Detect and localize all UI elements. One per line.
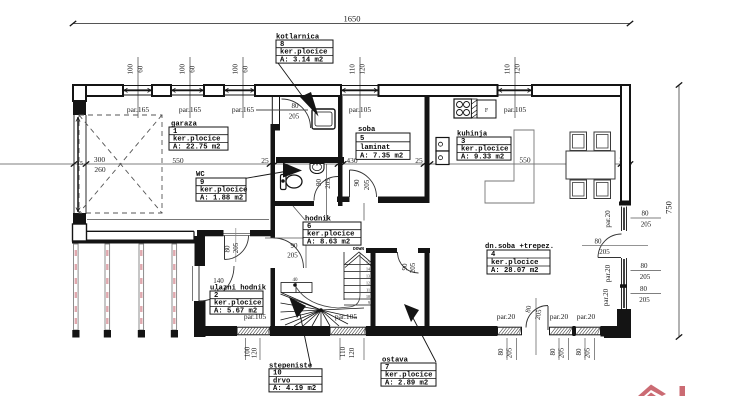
hatched window in south wall 497.5-521.5 <box>498 327 522 335</box>
entry west wall upper <box>195 236 206 266</box>
svg-text:100: 100 <box>179 64 187 75</box>
svg-text:120: 120 <box>348 347 356 358</box>
svg-text:205: 205 <box>287 252 298 260</box>
left wall column block lower <box>73 213 86 231</box>
right wall window dims <box>582 210 661 305</box>
svg-text:80: 80 <box>292 102 300 110</box>
kotlarnica south wall <box>276 157 344 163</box>
svg-text:par.20: par.20 <box>577 312 596 321</box>
svg-text:13: 13 <box>366 274 370 279</box>
svg-text:A: 2.89 m2: A: 2.89 m2 <box>385 379 428 387</box>
svg-text:par.165: par.165 <box>179 105 202 114</box>
dn.soba south door leaf and arc <box>547 306 549 330</box>
svg-text:205: 205 <box>506 347 514 358</box>
ostava north stub east <box>418 248 430 253</box>
ostava door arc <box>398 252 419 273</box>
svg-text:300: 300 <box>94 155 106 164</box>
stepeniste leader <box>300 314 311 367</box>
stairs east wall <box>371 250 376 327</box>
kitchen stove <box>454 99 472 118</box>
svg-text:80: 80 <box>549 348 557 356</box>
svg-text:60: 60 <box>189 65 197 73</box>
entry north door leaf and arc <box>224 236 226 260</box>
top wall windows <box>123 86 532 96</box>
wall W1 garage-hodnik-stairs west <box>271 124 276 238</box>
svg-text:110: 110 <box>504 64 512 75</box>
svg-text:60: 60 <box>137 65 145 73</box>
entry north wall east stub <box>250 230 271 236</box>
svg-text:par.105: par.105 <box>349 105 372 114</box>
svg-text:120: 120 <box>514 64 522 75</box>
right wall end cap <box>619 202 631 206</box>
hatched window in south wall 575.5-600.5 <box>576 327 601 335</box>
fridge F box <box>477 100 496 118</box>
left wall top corner <box>73 85 86 101</box>
kitchen counter thin outline <box>485 130 534 203</box>
svg-text:par.165: par.165 <box>232 105 255 114</box>
svg-text:110: 110 <box>339 346 347 357</box>
svg-text:A: 9.33 m2: A: 9.33 m2 <box>461 153 504 161</box>
svg-text:205: 205 <box>599 248 610 256</box>
svg-text:550: 550 <box>172 156 184 165</box>
kitchen west wall <box>425 96 430 203</box>
svg-text:60: 60 <box>242 65 250 73</box>
right wall windows <box>622 207 627 310</box>
ostava leader <box>412 316 436 362</box>
hatched window in south wall 549.5-572.5 <box>550 327 573 335</box>
svg-text:80: 80 <box>575 348 583 356</box>
terrace door arc right wall <box>598 257 621 259</box>
garage south wall outlined <box>86 230 194 232</box>
south wall solid segments <box>194 326 605 337</box>
front entry door leaf and arc <box>198 266 200 301</box>
svg-text:110: 110 <box>349 64 357 75</box>
svg-text:550: 550 <box>519 156 531 165</box>
hatched window in south wall 237-270 <box>237 327 270 335</box>
kotlarnica door arc <box>282 99 311 128</box>
winder fan <box>281 294 365 326</box>
svg-text:par.20: par.20 <box>497 312 516 321</box>
svg-text:80: 80 <box>641 262 649 270</box>
svg-text:205: 205 <box>289 113 300 121</box>
entry north wall west stub <box>197 230 224 236</box>
hodnik leader <box>293 206 305 220</box>
svg-text:9: 9 <box>368 300 370 305</box>
dn.soba west wall lower <box>425 248 430 326</box>
svg-text:A: 7.35 m2: A: 7.35 m2 <box>360 153 403 161</box>
svg-text:205: 205 <box>232 242 240 253</box>
WC washbasin <box>310 164 324 174</box>
svg-text:90: 90 <box>291 242 299 250</box>
svg-text:205: 205 <box>409 262 417 273</box>
south window rotated dim texts <box>244 346 592 358</box>
stairs straight flight treads <box>344 265 371 306</box>
flight left boundary <box>343 252 345 300</box>
WC south wall <box>271 201 315 206</box>
svg-text:80: 80 <box>595 238 603 246</box>
interior horizontal dimension chain <box>0 161 633 166</box>
svg-text:100: 100 <box>127 64 135 75</box>
WC toilet <box>281 175 287 190</box>
stove side hatch strip <box>472 99 478 118</box>
svg-text:A: 1.88 m2: A: 1.88 m2 <box>200 194 243 202</box>
kitchen sink units <box>436 138 449 152</box>
svg-text:A: 8.63 m2: A: 8.63 m2 <box>307 238 350 246</box>
svg-text:80: 80 <box>497 348 505 356</box>
WC leader <box>236 171 288 180</box>
svg-text:25: 25 <box>415 156 423 165</box>
svg-text:205: 205 <box>640 273 651 281</box>
hatched window in south wall 330-366 <box>330 327 366 335</box>
chain dim texts <box>77 155 627 174</box>
svg-text:DOWN: DOWN <box>353 246 364 252</box>
svg-text:205: 205 <box>558 347 566 358</box>
svg-text:25: 25 <box>261 156 269 165</box>
svg-text:260: 260 <box>94 165 106 174</box>
stairs tread numbers <box>366 260 370 306</box>
svg-text:750: 750 <box>664 201 674 214</box>
svg-text:205: 205 <box>363 179 371 190</box>
svg-text:80: 80 <box>223 245 231 253</box>
soba door leaf and arc <box>349 170 351 197</box>
svg-text:A: 22.75 m2: A: 22.75 m2 <box>173 143 220 151</box>
ostava north stub west <box>366 248 397 253</box>
svg-text:205: 205 <box>639 296 650 304</box>
svg-text:120: 120 <box>251 347 259 358</box>
entry door threshold lines <box>224 233 251 235</box>
wall kotlarnica/WC east <box>338 96 343 206</box>
entry west wall lower pillar <box>194 301 206 337</box>
svg-text:par.165: par.165 <box>127 105 150 114</box>
right wall mullion <box>620 284 627 288</box>
svg-text:11: 11 <box>366 288 370 293</box>
svg-text:90: 90 <box>401 263 409 271</box>
svg-text:40: 40 <box>293 278 299 283</box>
bottom-right corner L pillar <box>604 309 631 338</box>
svg-text:14: 14 <box>366 267 370 272</box>
left wall window <box>74 115 86 214</box>
garage interior beam line <box>87 219 269 221</box>
hodnik door arc in W1 <box>274 238 304 268</box>
WC door arc <box>314 177 338 201</box>
svg-text:par.20: par.20 <box>604 264 612 282</box>
svg-text:205: 205 <box>641 221 652 229</box>
svg-text:A: 4.19 m2: A: 4.19 m2 <box>273 385 316 393</box>
garage dashed parking X <box>79 115 162 213</box>
red watermark logo <box>638 385 685 396</box>
dining chairs <box>570 132 587 151</box>
svg-text:12: 12 <box>366 281 370 286</box>
winder landing rectangle <box>281 283 321 311</box>
svg-text:100: 100 <box>232 64 240 75</box>
top wall outlined segments <box>73 85 630 96</box>
entry west outer face line across door gap <box>192 266 194 301</box>
boiler in kotlarnica <box>312 109 335 129</box>
svg-text:A: 5.67 m2: A: 5.67 m2 <box>214 307 257 315</box>
svg-text:205: 205 <box>584 347 592 358</box>
svg-text:par.105: par.105 <box>335 312 358 321</box>
svg-text:par.20: par.20 <box>602 288 610 306</box>
soba south wall <box>337 197 350 203</box>
terrace posts with pink hatches <box>72 244 79 338</box>
svg-text:A: 28.07 m2: A: 28.07 m2 <box>491 267 538 275</box>
left wall column block upper <box>73 101 86 115</box>
top dimension line 1650 <box>70 14 633 27</box>
kotlarnica door jamb <box>271 97 273 124</box>
svg-text:120: 120 <box>359 64 367 75</box>
svg-text:90: 90 <box>353 179 361 187</box>
right wall upper <box>621 85 630 202</box>
svg-text:80: 80 <box>640 285 648 293</box>
svg-text:205: 205 <box>324 178 332 189</box>
svg-text:90: 90 <box>315 179 323 187</box>
svg-text:1650: 1650 <box>344 14 361 24</box>
svg-text:A: 3.14 m2: A: 3.14 m2 <box>280 56 323 64</box>
walking line <box>296 253 360 308</box>
svg-text:80: 80 <box>642 210 650 218</box>
south window dim ext lines <box>246 338 595 360</box>
svg-text:par.20: par.20 <box>550 312 569 321</box>
svg-text:par.105: par.105 <box>504 105 527 114</box>
svg-text:par.20: par.20 <box>604 210 612 228</box>
dining table <box>566 151 615 179</box>
kotlarnica leader <box>278 63 303 97</box>
svg-text:10: 10 <box>366 294 370 299</box>
top window extension lines and labels <box>127 57 527 118</box>
right dimension line 750 <box>664 82 683 339</box>
